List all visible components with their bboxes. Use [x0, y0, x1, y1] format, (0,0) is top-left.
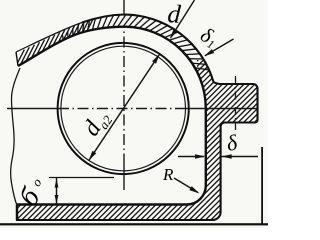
d_a2 arrow upper: [152, 54, 160, 64]
housing outer profile with flange and bottom: [17, 15, 258, 221]
svg-text:R: R: [162, 165, 174, 184]
svg-text:da2: da2: [78, 105, 115, 142]
figure bottom border line: [0, 223, 268, 225]
delta right arrow: [221, 154, 232, 159]
break (wavy) line left: [11, 68, 20, 206]
vertical centerline: [123, 0, 125, 16]
svg-text:d: d: [167, 0, 183, 29]
housing inner wall profile: [17, 27, 206, 205]
R arrow: [189, 186, 199, 193]
housing outer wall thin upper-left edge: [16, 23, 82, 53]
b0 dimension line: [56, 178, 58, 204]
delta dimension right segment: [222, 156, 259, 158]
delta dimension left segment: [178, 156, 204, 158]
b0 arrow down: [55, 195, 59, 204]
svg-text:δ: δ: [225, 129, 240, 156]
d leader line: [171, 0, 195, 38]
horizontal centerline: [7, 108, 58, 110]
delta1 arrow: [204, 49, 214, 56]
bottom wall left end cap: [16, 205, 18, 221]
d_a2 arrow lower: [89, 151, 97, 161]
d arrow: [170, 29, 178, 39]
svg-text:δ1: δ1: [196, 22, 222, 51]
figure right border line: [261, 147, 263, 225]
gear inner thin circle: [61, 46, 186, 171]
d_a2 dimension line: [89, 54, 160, 161]
R leader line: [174, 178, 198, 193]
b0 extension line: [49, 177, 114, 179]
b0 arrow up: [55, 179, 59, 188]
delta left arrow: [195, 154, 206, 159]
wall left end cap: [16, 52, 18, 66]
delta1 leader line: [205, 39, 234, 56]
bolt axis centerline in flange: [235, 76, 237, 130]
gear tip circle (outer, thick): [58, 43, 189, 174]
